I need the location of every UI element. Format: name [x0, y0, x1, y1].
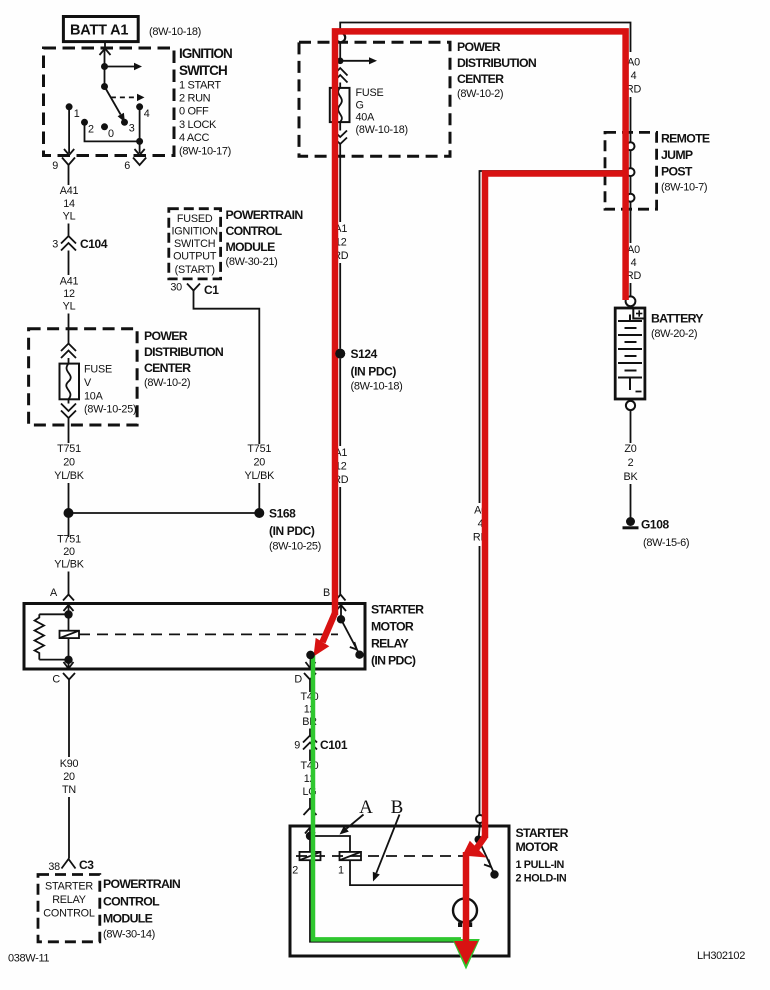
svg-text:POWER: POWER [457, 40, 501, 54]
svg-text:G: G [356, 100, 364, 112]
wire K90 20 TN [60, 690, 79, 859]
ignition switch wiper arrowheads [118, 63, 145, 122]
wire A0 4 RD upper labels [626, 57, 642, 143]
svg-text:0 OFF: 0 OFF [179, 106, 209, 118]
svg-text:20: 20 [63, 457, 75, 469]
relay pin B [323, 587, 346, 601]
svg-text:14: 14 [63, 198, 75, 210]
fuse V exit chevrons [61, 399, 76, 418]
svg-text:DISTRIBUTION: DISTRIBUTION [457, 56, 537, 70]
svg-text:T751: T751 [57, 534, 81, 546]
svg-text:POWERTRAIN: POWERTRAIN [226, 208, 304, 222]
svg-text:40A: 40A [356, 112, 376, 124]
ignition switch labels [179, 46, 232, 158]
svg-text:9: 9 [294, 740, 300, 752]
svg-text:S168: S168 [269, 507, 296, 521]
svg-text:Z0: Z0 [624, 443, 636, 455]
svg-text:POWERTRAIN: POWERTRAIN [103, 877, 181, 891]
svg-text:TN: TN [62, 784, 76, 796]
svg-text:K90: K90 [60, 758, 79, 770]
svg-text:A41: A41 [60, 276, 79, 288]
PCM C1 labels [226, 208, 304, 268]
svg-text:FUSE: FUSE [84, 364, 112, 376]
svg-text:MODULE: MODULE [226, 240, 276, 254]
svg-text:A: A [359, 797, 373, 818]
ignition switch contact 1 [66, 103, 80, 153]
fused ignition switch output labels [172, 213, 218, 276]
wire from C1 to S168 (T751 20 YL/BK) [194, 297, 276, 509]
svg-text:038W-11: 038W-11 [8, 953, 49, 965]
fuse G exit chevrons [334, 122, 348, 144]
wire A41 14 YL [60, 173, 79, 237]
svg-text:(8W-10-7): (8W-10-7) [661, 182, 707, 194]
ignition switch contact 4 [136, 103, 150, 153]
starter motor relay box [24, 604, 365, 670]
svg-text:3 LOCK: 3 LOCK [179, 119, 217, 131]
svg-text:9: 9 [52, 160, 58, 172]
svg-text:(8W-10-25): (8W-10-25) [84, 404, 136, 416]
svg-text:FUSE: FUSE [356, 87, 384, 99]
svg-text:3: 3 [129, 123, 135, 135]
callout letter B [373, 797, 404, 882]
connector C1 pin 30 [170, 282, 219, 298]
svg-text:DISTRIBUTION: DISTRIBUTION [144, 345, 224, 359]
PDC (fuse G) labels [457, 40, 537, 100]
wire A41 12 YL [60, 251, 79, 345]
svg-text:A0: A0 [627, 244, 640, 256]
svg-text:1 START: 1 START [179, 80, 221, 92]
svg-text:POST: POST [661, 165, 693, 179]
svg-text:20: 20 [63, 771, 75, 783]
wire BATT A1 to ignition switch [100, 42, 111, 55]
svg-text:JUMP: JUMP [661, 148, 693, 162]
relay pin C [52, 673, 75, 690]
highlighted green wire relay D to starter [313, 655, 461, 939]
wire A0 4 RD lower labels [626, 202, 642, 297]
svg-text:2: 2 [628, 457, 634, 469]
svg-text:12: 12 [63, 288, 75, 300]
relay pin D [294, 673, 316, 692]
splice S124 [335, 347, 402, 393]
remote jump post box [605, 132, 657, 209]
svg-text:CONTROL: CONTROL [43, 908, 95, 920]
battery positive terminal [626, 296, 636, 306]
battery negative terminal [626, 401, 635, 410]
wire T40 12 BR [300, 691, 318, 736]
svg-text:SWITCH: SWITCH [179, 63, 227, 78]
solenoid pull-in winding 1 [338, 852, 361, 877]
svg-text:(8W-20-2): (8W-20-2) [651, 328, 697, 340]
svg-text:RELAY: RELAY [371, 637, 409, 651]
relay pin A entry arrow and node [64, 605, 74, 619]
ignition switch contact 3 [121, 119, 135, 135]
svg-text:T40: T40 [300, 691, 318, 703]
svg-text:A41: A41 [60, 185, 79, 197]
svg-text:4: 4 [631, 70, 637, 82]
pin 9 of ignition switch [52, 158, 75, 173]
svg-text:(8W-10-18): (8W-10-18) [356, 124, 408, 136]
remote jump post terminals [627, 142, 635, 202]
svg-text:4: 4 [631, 257, 637, 269]
svg-text:C1: C1 [204, 283, 219, 297]
red ground path arrowhead [454, 941, 478, 965]
battery feed box BATT A1 [63, 17, 138, 42]
starter eyelet terminal [476, 815, 484, 823]
battery labels [651, 312, 703, 341]
ignition switch box [44, 48, 175, 156]
svg-text:STARTER: STARTER [371, 603, 424, 617]
wire Z0 2 BK [623, 410, 638, 517]
svg-text:YL/BK: YL/BK [54, 470, 85, 482]
splice S124 dot overlay [335, 349, 345, 359]
svg-text:2: 2 [292, 865, 298, 877]
svg-text:2 HOLD-IN: 2 HOLD-IN [516, 873, 567, 885]
wire A1 12 RD lower [333, 359, 349, 595]
powertrain control module box (starter relay control) [38, 875, 100, 942]
starter motor labels [516, 826, 569, 885]
svg-text:CENTER: CENTER [144, 361, 191, 375]
battery cells [618, 315, 642, 392]
svg-text:(IN PDC): (IN PDC) [351, 365, 397, 379]
eyelet terminal at PDC top [336, 33, 345, 42]
svg-text:4 ACC: 4 ACC [179, 132, 209, 144]
wire T40 12 LG [300, 750, 318, 809]
fuse G labels [356, 87, 408, 136]
svg-text:BATTERY: BATTERY [651, 312, 703, 326]
ignition switch junction dots on wiper [101, 63, 108, 90]
svg-text:(IN PDC): (IN PDC) [269, 524, 315, 538]
ground G108 [623, 517, 690, 549]
svg-text:LH302102: LH302102 [697, 950, 745, 962]
svg-text:D: D [294, 674, 302, 686]
svg-text:SWITCH: SWITCH [174, 238, 215, 250]
svg-text:(8W-30-21): (8W-30-21) [226, 256, 278, 268]
svg-text:1 PULL-IN: 1 PULL-IN [516, 859, 565, 871]
svg-text:A0: A0 [627, 57, 640, 69]
svg-text:1: 1 [338, 865, 344, 877]
svg-text:6: 6 [124, 160, 130, 172]
svg-text:(8W-15-6): (8W-15-6) [643, 537, 689, 549]
svg-text:1: 1 [74, 108, 80, 120]
svg-text:10A: 10A [84, 391, 104, 403]
svg-text:C104: C104 [80, 237, 108, 251]
wire T751 20 YL/BK lower [54, 534, 85, 595]
fuse V labels [84, 364, 136, 416]
PCM C3 labels [103, 877, 181, 941]
svg-text:RELAY: RELAY [52, 894, 86, 906]
ignition switch contact 2 [81, 119, 140, 142]
red starter motor feed wire [463, 852, 470, 941]
callout letter A [340, 797, 374, 835]
svg-text:(8W-10-17): (8W-10-17) [179, 146, 231, 158]
relay coil [60, 615, 80, 665]
top feed wire from PDC to remote jump post [340, 23, 630, 53]
starter internal dashed link [296, 855, 467, 857]
starter motor relay labels [371, 603, 424, 668]
relay internal dashed link [79, 633, 338, 635]
connector C104 pin 3 [52, 236, 108, 251]
svg-text:YL/BK: YL/BK [244, 470, 275, 482]
svg-text:FUSED: FUSED [177, 213, 213, 225]
svg-text:YL: YL [63, 211, 76, 223]
svg-text:(8W-10-18): (8W-10-18) [149, 26, 201, 38]
svg-text:STARTER: STARTER [516, 826, 569, 840]
hold-in winding to motor return wire [310, 860, 464, 942]
fuse G entry chevrons [333, 68, 348, 88]
fuse G feed node and branch arrow [337, 42, 377, 64]
svg-text:YL/BK: YL/BK [54, 559, 85, 571]
svg-text:CENTER: CENTER [457, 72, 504, 86]
svg-text:(8W-10-25): (8W-10-25) [269, 541, 321, 553]
power distribution center box (fuse V) [29, 329, 138, 425]
connector C3 pin 38 [48, 858, 94, 873]
starter relay control labels [43, 881, 95, 920]
svg-text:2 RUN: 2 RUN [179, 93, 211, 105]
relay pin D node [306, 651, 316, 669]
svg-text:CONTROL: CONTROL [103, 895, 160, 909]
battery plus marker [633, 308, 645, 319]
svg-text:IGNITION: IGNITION [172, 226, 218, 238]
starter switch contact [475, 823, 499, 879]
svg-text:C101: C101 [320, 738, 348, 752]
svg-text:0: 0 [108, 128, 114, 140]
PDC labels [144, 329, 224, 389]
svg-text:BK: BK [623, 471, 638, 483]
svg-text:38: 38 [48, 861, 60, 873]
svg-text:4: 4 [144, 108, 150, 120]
svg-text:(8W-30-14): (8W-30-14) [103, 929, 155, 941]
red arrow into relay contact [314, 613, 336, 657]
svg-text:(8W-10-2): (8W-10-2) [144, 377, 190, 389]
ignition switch contact 0 [101, 123, 114, 140]
svg-text:YL: YL [63, 301, 76, 313]
svg-text:REMOTE: REMOTE [661, 132, 710, 146]
svg-text:MOTOR: MOTOR [516, 840, 559, 854]
svg-text:T40: T40 [300, 760, 318, 772]
fuse V 10A [60, 364, 80, 400]
svg-text:POWER: POWER [144, 329, 188, 343]
svg-text:(IN PDC): (IN PDC) [371, 654, 416, 668]
starter solenoid pin entry arrow and node [305, 828, 315, 841]
svg-text:3: 3 [52, 239, 58, 251]
svg-text:MOTOR: MOTOR [371, 620, 414, 634]
svg-text:30: 30 [170, 282, 182, 294]
battery feed wire to starter (black under red) [480, 171, 628, 815]
svg-text:STARTER: STARTER [45, 881, 93, 893]
pin 6 of ignition switch [124, 158, 146, 173]
starter motor armature [453, 898, 477, 927]
svg-text:2: 2 [88, 124, 94, 136]
starter motor box [290, 826, 509, 956]
relay resistor [35, 614, 69, 659]
highlighted red battery-to-starter wire [485, 174, 626, 839]
svg-text:(8W-10-2): (8W-10-2) [457, 88, 503, 100]
fuse V entry chevrons [61, 344, 76, 364]
fuse G 40A [330, 88, 350, 122]
svg-text:OUTPUT: OUTPUT [173, 251, 217, 263]
svg-text:(8W-10-18): (8W-10-18) [351, 381, 403, 393]
ignition switch exit arrows [64, 149, 145, 155]
splice S168 node [64, 507, 321, 553]
svg-text:MODULE: MODULE [103, 912, 153, 926]
svg-text:G108: G108 [641, 518, 669, 532]
svg-text:T751: T751 [247, 443, 271, 455]
svg-text:S124: S124 [351, 347, 378, 361]
pull-in winding to contact wire [350, 860, 464, 885]
relay pin B entry arrow and switch [336, 605, 364, 659]
solenoid hold-in winding 2 [292, 852, 320, 877]
starter contact to motor wire (under red) [463, 858, 465, 942]
svg-text:BATT A1: BATT A1 [70, 23, 128, 39]
svg-text:CONTROL: CONTROL [226, 224, 283, 238]
green ground path arrowhead [452, 939, 480, 970]
svg-text:(START): (START) [175, 264, 215, 276]
svg-text:C: C [52, 674, 60, 686]
svg-text:B: B [323, 587, 330, 599]
wire T751 20 YL/BK upper [54, 418, 85, 537]
svg-text:V: V [84, 377, 92, 389]
red arrow into starter contact [463, 837, 487, 858]
fused ignition switch output box (PCM) [169, 209, 221, 279]
svg-text:C3: C3 [79, 858, 94, 872]
highlighted red feed wire through fuse G [335, 31, 626, 615]
svg-text:T751: T751 [57, 443, 81, 455]
wire A1 12 RD upper [333, 144, 349, 349]
relay pin D node dot overlay [306, 651, 314, 659]
svg-text:IGNITION: IGNITION [179, 46, 232, 61]
starter solenoid pin fork [304, 808, 317, 815]
ignition switch internal wiper [105, 48, 137, 115]
solenoid winding feed wires [310, 836, 350, 852]
svg-text:20: 20 [63, 546, 75, 558]
svg-text:A: A [50, 587, 58, 599]
remote jump post labels [661, 132, 710, 194]
svg-text:B: B [391, 797, 404, 818]
battery box [615, 308, 645, 399]
power distribution center box (fuse G) [299, 42, 450, 156]
relay pin C exit arrow [64, 660, 74, 669]
svg-text:20: 20 [253, 457, 265, 469]
wire A0 4 RD starter feed labels [473, 505, 489, 544]
relay pin A [50, 587, 74, 601]
connector C101 pin 9 [294, 736, 348, 753]
